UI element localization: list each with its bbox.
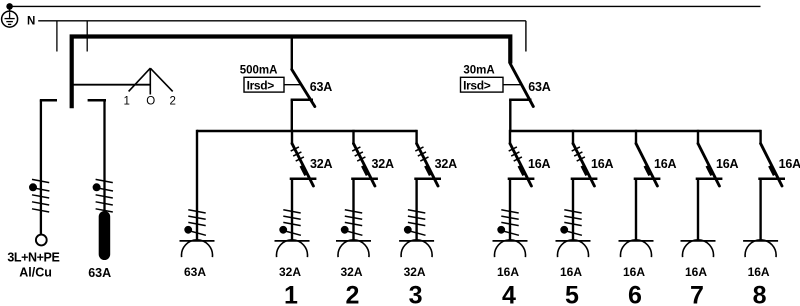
- svg-text:Irsd>: Irsd>: [463, 78, 491, 92]
- svg-text:1: 1: [284, 282, 298, 306]
- svg-text:16A: 16A: [748, 265, 770, 279]
- svg-text:3L+N+PE: 3L+N+PE: [7, 250, 59, 264]
- svg-text:N: N: [27, 16, 35, 28]
- svg-text:Al/Cu: Al/Cu: [19, 265, 52, 279]
- svg-text:63A: 63A: [184, 265, 206, 279]
- svg-text:32A: 32A: [310, 157, 333, 171]
- svg-text:16A: 16A: [685, 265, 707, 279]
- svg-text:O: O: [146, 96, 155, 108]
- svg-text:16A: 16A: [623, 265, 645, 279]
- svg-text:16A: 16A: [528, 157, 551, 171]
- svg-text:32A: 32A: [404, 265, 426, 279]
- svg-text:8: 8: [753, 282, 767, 306]
- svg-text:3: 3: [409, 282, 423, 306]
- svg-text:6: 6: [628, 282, 642, 306]
- svg-text:7: 7: [690, 282, 704, 306]
- svg-text:500mA: 500mA: [240, 65, 278, 77]
- svg-text:30mA: 30mA: [463, 65, 494, 77]
- svg-text:2: 2: [169, 96, 175, 108]
- svg-text:16A: 16A: [591, 157, 614, 171]
- svg-text:32A: 32A: [372, 157, 395, 171]
- svg-text:63A: 63A: [528, 80, 551, 94]
- svg-text:4: 4: [502, 282, 516, 306]
- svg-text:5: 5: [565, 282, 579, 306]
- svg-text:32A: 32A: [435, 157, 458, 171]
- svg-text:16A: 16A: [716, 157, 739, 171]
- svg-text:16A: 16A: [560, 265, 582, 279]
- svg-text:1: 1: [123, 96, 129, 108]
- svg-text:63A: 63A: [88, 266, 111, 280]
- svg-text:63A: 63A: [310, 80, 333, 94]
- svg-text:32A: 32A: [279, 265, 301, 279]
- svg-text:16A: 16A: [654, 157, 677, 171]
- svg-text:Irsd>: Irsd>: [247, 78, 275, 92]
- svg-text:2: 2: [346, 282, 360, 306]
- svg-text:16A: 16A: [779, 157, 800, 171]
- svg-text:16A: 16A: [497, 265, 519, 279]
- svg-text:32A: 32A: [340, 265, 362, 279]
